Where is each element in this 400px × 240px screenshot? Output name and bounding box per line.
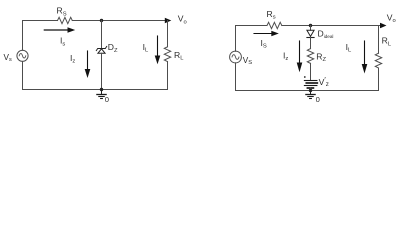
wire left branch lower (source down to bottom corner) [22,61,24,89]
wire RS to output arrow (through node) [72,20,165,22]
wire left branch lower (source to bottom corner) [235,63,237,91]
ground (right circuit) [310,91,312,95]
source Vs (sine source circle) [17,50,28,61]
svg-text:Iz: Iz [70,53,75,65]
resistor RS (horizontal zigzag) [58,17,73,23]
svg-text:RS: RS [57,6,67,18]
current arrow Is [44,29,68,31]
current arrow Iz [299,41,301,64]
resistor RL (vertical zigzag) [164,47,170,62]
svg-text:RL: RL [174,50,184,62]
svg-text:Iz: Iz [283,50,288,62]
svg-text:DZ: DZ [108,42,118,54]
node junction dot on top wire [100,19,103,22]
resistor RZ (vertical zigzag) [307,49,313,64]
current arrow IL [157,36,159,57]
junction dot bottom rail at ground [309,89,312,92]
current arrow Iz [87,51,89,70]
wire right branch upper (corner to RL) [167,21,169,47]
current arrow IL [364,41,366,65]
wire top-left segment (corner to Rs) [236,25,268,27]
wire right branch lower (RL to bottom corner) [167,62,169,90]
battery V'Z (cell plates) [304,80,317,82]
wire bottom rail [23,89,168,91]
resistor RL (vertical zigzag) [375,53,381,68]
svg-text:Vs: Vs [4,53,12,63]
wire middle branch (node to diode) [310,26,312,31]
wire right branch lower (RL to bottom corner) [378,68,380,91]
arrowhead to Vo output [165,18,172,24]
svg-text:IS: IS [261,38,267,50]
svg-text:0: 0 [105,95,109,104]
wire right branch upper (corner to RL) [378,26,380,54]
svg-text:Dideal: Dideal [318,28,334,39]
wire RZ to battery [310,63,312,80]
svg-text:0: 0 [316,95,320,104]
zener diode DZ (cathode bar with bent ends, open triangle below) [96,46,106,50]
wire battery to bottom rail [310,88,312,91]
current arrow IS [254,33,272,35]
wire left branch upper (corner down to source) [22,21,24,51]
arrowhead to Vo output [380,23,387,29]
svg-text:Vo: Vo [178,14,187,26]
ground (left circuit) [101,90,103,95]
wire left branch upper (corner to source) [235,26,237,52]
junction dot bottom rail at ground [100,88,103,91]
source VS (sine source circle) [230,51,242,63]
resistor Rs (horizontal zigzag) [267,22,282,28]
wire Rs to output arrow (through node) [282,25,381,27]
svg-text:Is: Is [60,36,65,48]
svg-text:Rs: Rs [267,9,276,21]
node junction dot on top wire [309,24,312,27]
svg-text:RZ: RZ [316,51,326,63]
svg-text:V′z: V′z [319,75,329,88]
wire top-left segment (corner to RS) [23,20,58,22]
svg-text:IL: IL [346,42,352,54]
wire middle branch lower (zener to bottom rail) [101,53,103,89]
svg-text:IL: IL [143,42,149,54]
wire bottom rail [236,90,379,92]
diode Dideal (open triangle pointing down, cathode bar) [307,30,314,36]
wire diode to RZ [310,38,312,49]
svg-text:RL: RL [382,36,392,48]
svg-text:VS: VS [243,56,252,66]
battery plus polarity dot [304,76,306,78]
wire middle branch upper (node to zener) [101,21,103,49]
svg-text:Vo: Vo [387,12,396,24]
